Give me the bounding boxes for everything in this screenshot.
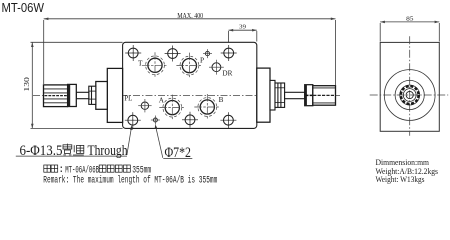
side view horizontal centerline xyxy=(370,94,449,96)
svg-text:85: 85 xyxy=(406,16,414,23)
side view large circle xyxy=(384,70,435,121)
dimension 85 xyxy=(380,22,439,42)
port PL xyxy=(138,99,151,112)
svg-text:A: A xyxy=(159,97,165,105)
svg-text:6-Φ13.5: 6-Φ13.5 xyxy=(20,143,63,159)
dimension 130 xyxy=(31,42,123,128)
mounting hole bottom-left xyxy=(125,112,141,128)
dimension 39 xyxy=(229,30,257,49)
svg-text:Through: Through xyxy=(88,143,129,159)
mounting hole bottom-right xyxy=(220,112,236,128)
left stem xyxy=(76,92,89,98)
side view middle circle xyxy=(395,80,424,109)
right cover plate xyxy=(257,68,270,122)
right cylinder xyxy=(270,80,275,110)
svg-text:PL: PL xyxy=(124,95,132,102)
left locknut xyxy=(68,84,77,106)
left hex nut xyxy=(89,86,96,104)
centerline (front view) xyxy=(33,94,341,96)
mounting hole top-middle xyxy=(165,46,181,62)
right locknut xyxy=(305,85,313,106)
svg-text:Weight: W13kgs: Weight: W13kgs xyxy=(376,175,425,184)
port T xyxy=(142,52,168,78)
right stem xyxy=(285,92,305,98)
right knob xyxy=(313,86,336,106)
svg-text:MAX. 400: MAX. 400 xyxy=(177,11,203,20)
dimension MAX. 400 xyxy=(44,19,336,85)
svg-text:B: B xyxy=(219,96,224,104)
side view gear ring xyxy=(400,85,420,105)
mounting hole bottom-middle xyxy=(182,112,198,128)
small hole top (near P) xyxy=(203,49,212,58)
svg-text:Dimmension:mm: Dimmension:mm xyxy=(376,158,430,167)
side view inner circle xyxy=(403,89,416,102)
leader for 6-phi13.5 xyxy=(127,128,131,155)
mounting hole top-left xyxy=(125,45,141,61)
leader for phi7*2 xyxy=(156,127,163,158)
left knob knurl dashes xyxy=(45,95,68,97)
left cover plate xyxy=(107,68,122,122)
side view center hole xyxy=(406,91,413,98)
svg-text:MT-06W: MT-06W xyxy=(2,0,45,15)
svg-text:DR: DR xyxy=(222,69,232,77)
CJK 贯通 (drawn) xyxy=(63,144,84,155)
right hex adapter xyxy=(275,83,285,107)
port DR xyxy=(209,60,224,75)
valve body (front view) xyxy=(123,42,257,128)
port A xyxy=(159,95,185,121)
svg-text:T: T xyxy=(138,59,143,68)
port B xyxy=(194,94,220,120)
port P xyxy=(176,53,202,79)
svg-text:P: P xyxy=(200,55,204,64)
left knob (knurled) xyxy=(44,85,68,107)
mounting hole top-right xyxy=(221,45,237,61)
left cylinder xyxy=(96,82,108,110)
right knob knurl dashes xyxy=(313,94,335,96)
side view vertical centerline xyxy=(409,36,411,136)
small hole bottom (phi7) xyxy=(151,116,160,125)
svg-text:39: 39 xyxy=(239,24,246,31)
svg-text:130: 130 xyxy=(22,77,31,92)
side view box xyxy=(380,42,439,131)
remark line 1 (Chinese) xyxy=(44,165,58,172)
svg-text:Remark: The maximum length of: Remark: The maximum length of MT-06A/B i… xyxy=(43,174,217,186)
